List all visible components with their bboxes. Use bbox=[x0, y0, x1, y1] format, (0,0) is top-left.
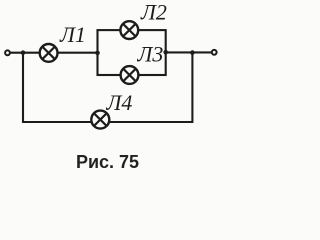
svg-text:Л4: Л4 bbox=[106, 90, 133, 115]
svg-text:Л3: Л3 bbox=[137, 42, 164, 67]
svg-text:Рис. 75: Рис. 75 bbox=[76, 152, 139, 172]
svg-text:Л1: Л1 bbox=[59, 22, 86, 47]
svg-text:Л2: Л2 bbox=[140, 0, 167, 25]
